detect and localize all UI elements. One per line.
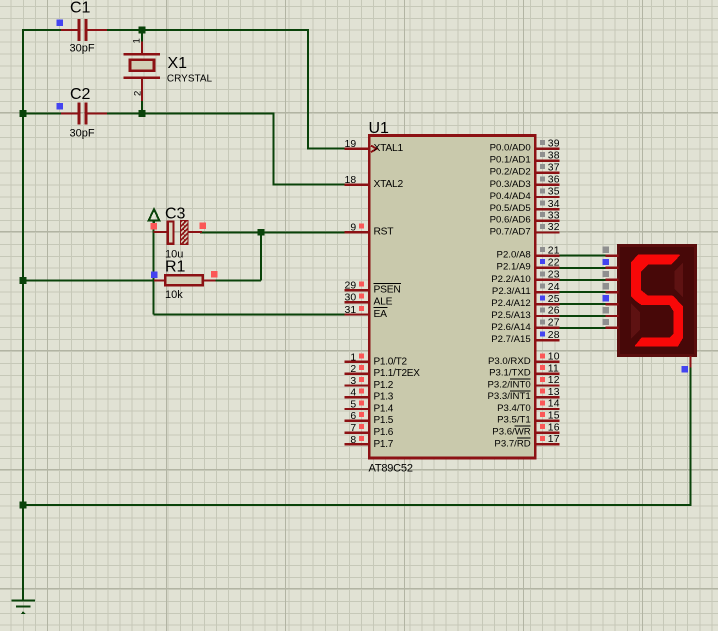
svg-text:13: 13: [548, 387, 560, 398]
pin 24 P2.3/A11: [492, 282, 560, 297]
node junction GND-rail / C2: [20, 110, 27, 117]
svg-text:15: 15: [548, 411, 560, 422]
svg-text:P0.2/AD2: P0.2/AD2: [490, 167, 531, 178]
wire P2.6 to display segment: [560, 327, 606, 329]
svg-text:XTAL1: XTAL1: [374, 143, 404, 154]
svg-text:P2.0/A8: P2.0/A8: [497, 250, 531, 261]
svg-text:16: 16: [548, 422, 560, 433]
svg-text:C3: C3: [165, 206, 186, 223]
svg-text:22: 22: [548, 258, 560, 269]
pin 6 P1.5: [345, 411, 394, 426]
pin 19 XTAL1: [345, 139, 404, 154]
7-segment display body: [619, 246, 696, 356]
svg-text:C1: C1: [70, 0, 91, 17]
svg-text:X1: X1: [168, 55, 188, 72]
svg-text:5: 5: [350, 399, 356, 410]
display pin segment a: [603, 247, 619, 256]
node C1 terminal marker (blue): [56, 20, 63, 27]
svg-text:38: 38: [548, 150, 560, 161]
wire P2.1 to display segment: [560, 267, 606, 269]
pin 13 P3.3/INT1: [487, 387, 559, 402]
pin 17 P3.7/RD: [494, 434, 559, 449]
wire P2.3 to display segment: [560, 291, 606, 293]
pin 33 P0.6/AD6: [490, 210, 560, 225]
wire RST net: C3 right to RST pin: [200, 231, 345, 233]
node C3 right terminal marker (red): [199, 222, 206, 229]
op-amp U1 AT89C52 MCU body: [369, 136, 535, 459]
svg-text:23: 23: [548, 270, 560, 281]
pin 18 XTAL2: [345, 175, 404, 190]
svg-text:CRYSTAL: CRYSTAL: [167, 74, 213, 85]
svg-text:33: 33: [548, 210, 560, 221]
svg-text:30: 30: [345, 293, 357, 304]
pin 30 ALE: [345, 293, 393, 308]
svg-text:P1.5: P1.5: [374, 415, 394, 426]
svg-text:P3.1/TXD: P3.1/TXD: [489, 368, 531, 379]
svg-text:34: 34: [548, 199, 560, 210]
pin 25 P2.4/A12: [491, 294, 560, 309]
svg-text:P0.7/AD7: P0.7/AD7: [490, 226, 531, 237]
wire R1 right lead to RST drop: [216, 280, 262, 282]
wire bottom GND rail: [23, 368, 691, 506]
pin 37 P0.2/AD2: [490, 162, 560, 177]
pin 39 P0.0/AD0: [490, 138, 560, 153]
svg-text:P1.7: P1.7: [374, 439, 394, 450]
svg-text:29: 29: [345, 281, 357, 292]
display pin segment d: [603, 283, 619, 292]
svg-text:P3.3/INT1: P3.3/INT1: [487, 391, 530, 402]
svg-text:P0.5/AD5: P0.5/AD5: [490, 203, 531, 214]
svg-text:P0.6/AD6: P0.6/AD6: [490, 215, 531, 226]
node junction RST net: [258, 229, 265, 236]
svg-text:P3.7/RD: P3.7/RD: [494, 438, 530, 449]
svg-text:8: 8: [350, 435, 356, 446]
svg-text:PSEN: PSEN: [374, 285, 401, 296]
svg-text:9: 9: [350, 223, 356, 234]
pin 9 RST: [345, 223, 395, 238]
pin 23 P2.2/A10: [491, 270, 560, 285]
svg-text:32: 32: [548, 222, 560, 233]
svg-text:P1.2: P1.2: [374, 380, 394, 391]
svg-text:10: 10: [548, 352, 560, 363]
display pin segment e: [603, 295, 619, 304]
pin 8 P1.7: [345, 435, 394, 450]
pin 38 P0.1/AD1: [490, 150, 560, 165]
wire ground-rail left vertical (net GND): [22, 29, 24, 600]
segment b (unlit): [675, 263, 683, 298]
node junction left vertical / bottom rail: [20, 502, 27, 509]
svg-text:36: 36: [548, 175, 560, 186]
svg-text:11: 11: [548, 363, 559, 374]
svg-text:P2.6/A14: P2.6/A14: [491, 322, 531, 333]
pin 3 P1.2: [345, 376, 394, 391]
svg-text:R1: R1: [165, 258, 186, 275]
svg-text:30pF: 30pF: [70, 128, 95, 140]
svg-text:1: 1: [350, 352, 356, 363]
svg-text:P0.1/AD1: P0.1/AD1: [490, 155, 531, 166]
svg-text:P2.5/A13: P2.5/A13: [491, 310, 530, 321]
display pin segment b: [603, 259, 619, 268]
svg-text:4: 4: [350, 388, 356, 399]
pin 29 PSEN: [345, 281, 401, 296]
svg-text:P3.6/WR: P3.6/WR: [492, 427, 530, 438]
svg-text:U1: U1: [369, 120, 390, 137]
power symbol VCC arrow: [149, 209, 160, 225]
pin 14 P3.4/T0: [497, 399, 560, 414]
wire P2.5 to display segment: [560, 315, 606, 317]
pin 16 P3.6/WR: [492, 422, 559, 437]
svg-text:P3.5/T1: P3.5/T1: [497, 415, 531, 426]
svg-text:37: 37: [548, 162, 560, 173]
svg-text:P2.4/A12: P2.4/A12: [491, 298, 530, 309]
svg-text:10k: 10k: [165, 289, 183, 301]
pin 27 P2.6/A14: [491, 318, 560, 333]
display pin segment f: [603, 307, 619, 316]
pin 22 P2.1/A9: [497, 258, 560, 273]
svg-text:6: 6: [350, 411, 356, 422]
pin 10 P3.0/RXD: [488, 352, 560, 367]
capacitor C2: [61, 103, 107, 125]
node junction GND-rail / R1: [20, 277, 27, 284]
pin 12 P3.2/INT0: [487, 375, 559, 390]
svg-text:P1.6: P1.6: [374, 427, 394, 438]
svg-text:14: 14: [548, 399, 560, 410]
svg-text:P3.2/INT0: P3.2/INT0: [487, 379, 530, 390]
svg-text:39: 39: [548, 138, 560, 149]
wire EA net horizontal: [153, 314, 345, 316]
svg-text:27: 27: [548, 318, 560, 329]
svg-text:P3.0/RXD: P3.0/RXD: [488, 356, 531, 367]
svg-text:18: 18: [345, 175, 357, 186]
node junction XTAL-pin1 / C1: [139, 27, 146, 34]
crystal X1: [123, 30, 160, 114]
svg-text:31: 31: [345, 305, 357, 316]
pin 28 P2.7/A15: [491, 330, 560, 345]
display common pin: [682, 356, 691, 372]
pin 21 P2.0/A8: [497, 245, 560, 260]
svg-text:EA: EA: [374, 309, 388, 320]
pin 36 P0.3/AD3: [490, 175, 560, 190]
node C3 left terminal marker (red): [151, 223, 158, 230]
capacitor C1: [61, 19, 107, 41]
svg-text:P3.4/T0: P3.4/T0: [497, 403, 531, 414]
pin 35 P0.4/AD4: [490, 187, 560, 202]
svg-text:7: 7: [350, 423, 356, 434]
pin 7 P1.6: [345, 423, 394, 438]
svg-text:P2.3/A11: P2.3/A11: [492, 286, 531, 297]
svg-text:19: 19: [345, 139, 357, 150]
display pin segment c: [603, 271, 619, 280]
wire P2.0 to display segment: [560, 255, 606, 257]
node R1 right terminal marker (red): [211, 271, 218, 278]
svg-text:21: 21: [548, 245, 560, 256]
resistor R1: [154, 275, 216, 285]
pin 15 P3.5/T1: [497, 411, 560, 426]
pin 11 P3.1/TXD: [489, 363, 559, 378]
pin 2 P1.1/T2EX: [345, 364, 420, 379]
svg-text:26: 26: [548, 306, 560, 317]
node junction XTAL-pin2 / C2: [139, 110, 146, 117]
node C2 terminal marker (blue): [56, 103, 63, 110]
svg-text:28: 28: [548, 330, 560, 341]
pin 5 P1.4: [345, 399, 394, 414]
node R1 left terminal marker (blue): [151, 271, 158, 278]
svg-text:P1.3: P1.3: [374, 392, 394, 403]
svg-text:P1.0/T2: P1.0/T2: [374, 356, 408, 367]
svg-text:RST: RST: [374, 227, 395, 238]
svg-text:P0.3/AD3: P0.3/AD3: [490, 179, 531, 190]
svg-text:XTAL2: XTAL2: [374, 179, 404, 190]
svg-text:C2: C2: [70, 86, 91, 103]
svg-text:P1.4: P1.4: [374, 403, 394, 414]
svg-text:30pF: 30pF: [70, 43, 95, 55]
wire C2 net to XTAL2: [23, 114, 345, 185]
display pin segment g: [603, 319, 619, 328]
pin 31 EA: [345, 305, 388, 320]
wire RST net vertical drop to R1: [260, 232, 262, 280]
svg-text:P0.4/AD4: P0.4/AD4: [490, 191, 532, 202]
pin 32 P0.7/AD7: [490, 222, 560, 237]
svg-text:ALE: ALE: [374, 297, 393, 308]
lit segments a,f,g,c,d forming digit 5: [632, 255, 683, 346]
pin 1 P1.0/T2: [345, 352, 408, 367]
pin 26 P2.5/A13: [491, 306, 560, 321]
svg-text:2: 2: [133, 91, 144, 96]
svg-text:AT89C52: AT89C52: [369, 463, 413, 475]
wire R1 left to GND-rail: [23, 280, 154, 282]
svg-text:1: 1: [132, 38, 143, 43]
svg-text:25: 25: [548, 294, 560, 305]
svg-text:P0.0/AD0: P0.0/AD0: [490, 143, 531, 154]
svg-text:12: 12: [548, 375, 560, 386]
wire VCC vertical: power arrow to EA row: [152, 221, 154, 315]
svg-text:2: 2: [350, 364, 356, 375]
svg-text:P2.2/A10: P2.2/A10: [491, 274, 530, 285]
pin 34 P0.5/AD5: [490, 199, 560, 214]
wire C1 top net to XTAL1: [23, 30, 345, 149]
wire P2.2 to display segment: [560, 279, 606, 281]
ground symbol: [12, 601, 35, 614]
wire P2.4 to display segment: [560, 303, 606, 305]
svg-text:P1.1/T2EX: P1.1/T2EX: [374, 368, 421, 379]
svg-text:17: 17: [548, 434, 560, 445]
svg-text:35: 35: [548, 187, 560, 198]
svg-text:P2.7/A15: P2.7/A15: [491, 334, 530, 345]
pin 4 P1.3: [345, 388, 394, 403]
svg-text:P2.1/A9: P2.1/A9: [497, 262, 531, 273]
svg-text:24: 24: [548, 282, 560, 293]
segment e (unlit): [631, 304, 640, 339]
svg-text:3: 3: [350, 376, 356, 387]
